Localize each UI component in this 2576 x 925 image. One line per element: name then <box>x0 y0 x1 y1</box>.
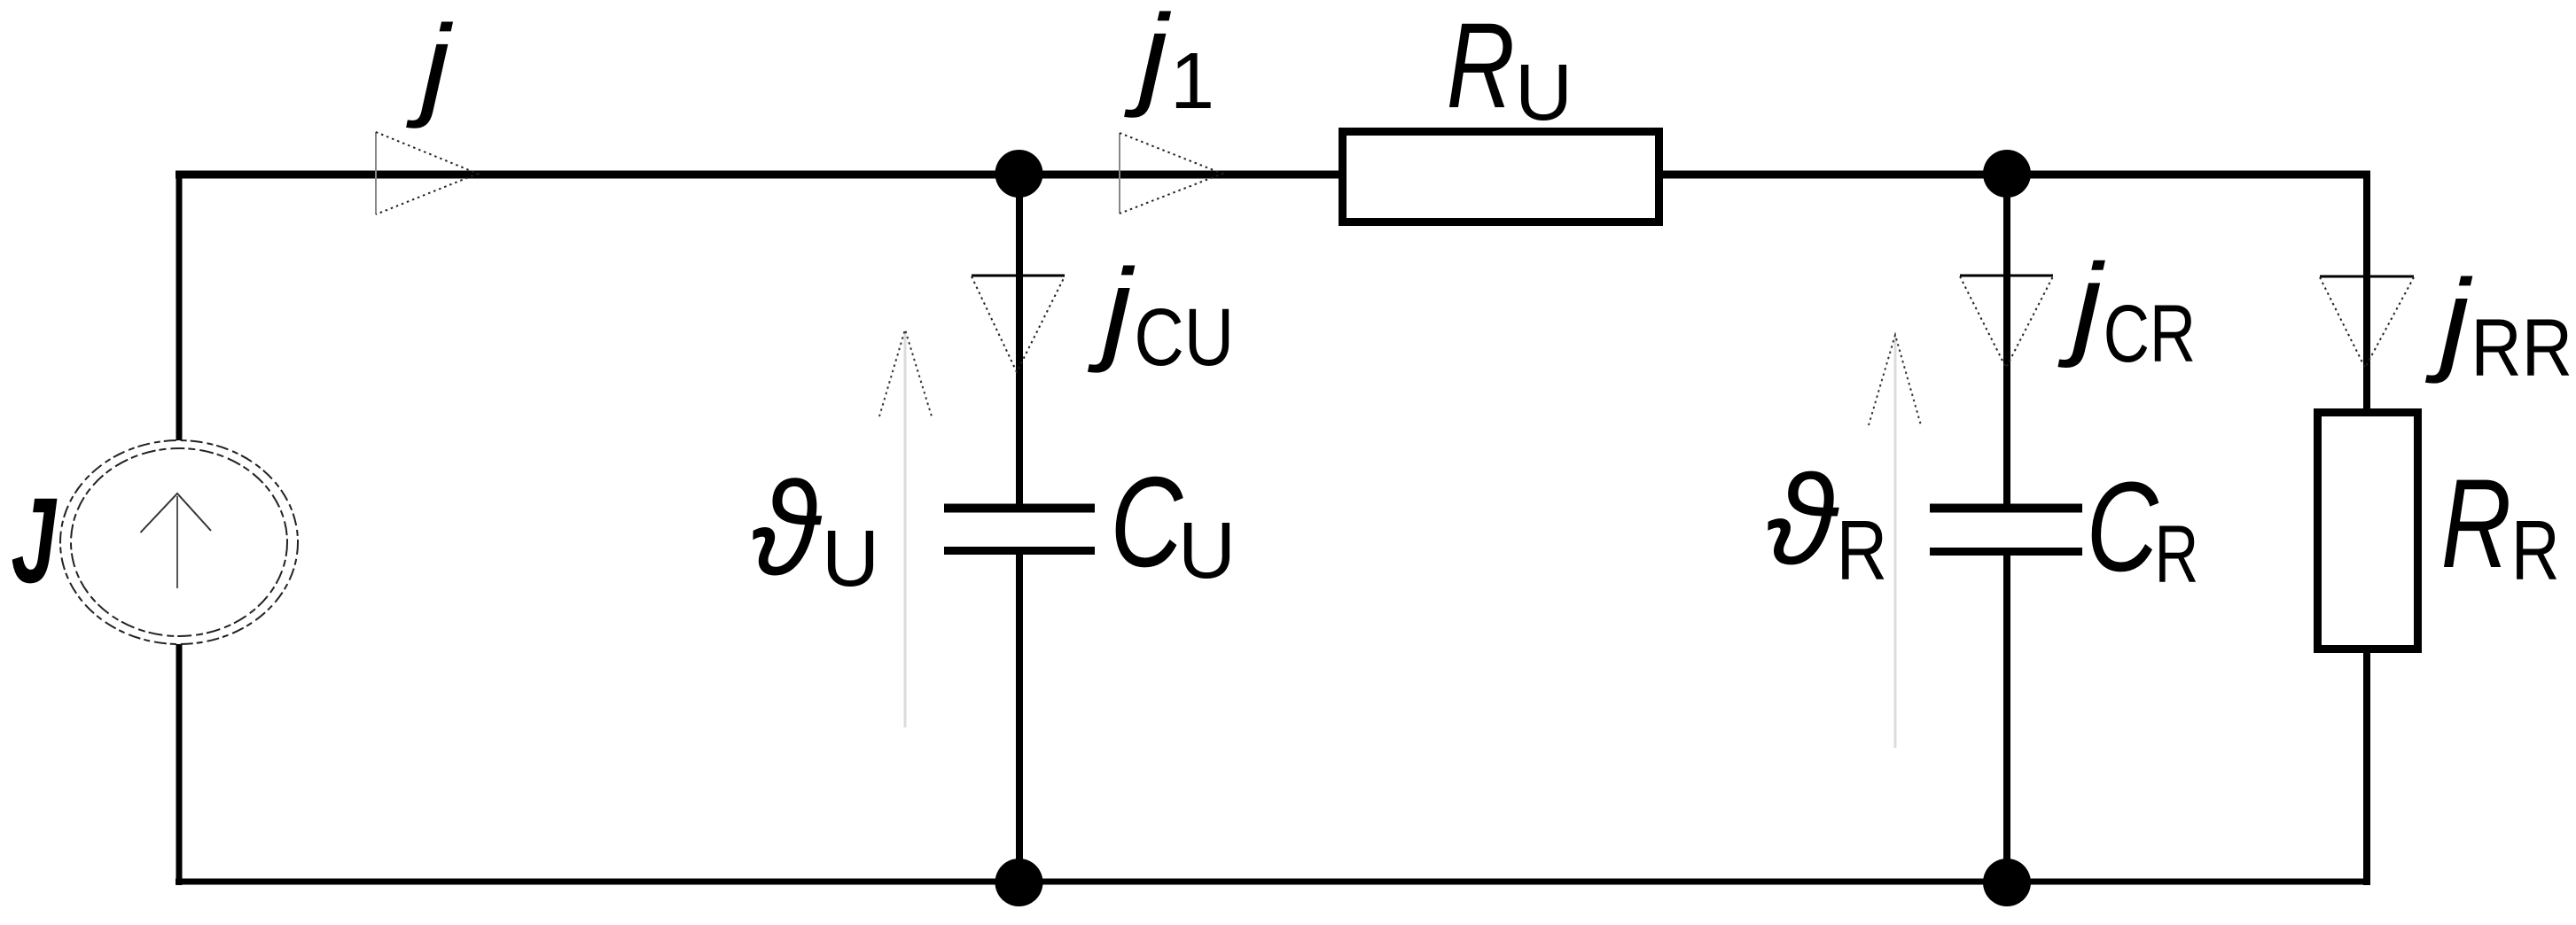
wire top horizontal <box>176 171 2370 179</box>
node C bottom-left junction <box>995 859 1043 906</box>
current source J arrow head <box>141 494 212 532</box>
svg-text:CR: CR <box>2104 288 2196 379</box>
svg-text:1: 1 <box>1170 37 1214 126</box>
arrow j1 back edge <box>1119 133 1120 214</box>
svg-text:ϑ: ϑ <box>1766 448 1839 591</box>
resistor RU <box>1343 132 1659 222</box>
svg-text:RR: RR <box>2471 303 2572 394</box>
svg-text:R: R <box>1837 502 1888 598</box>
svg-text:j: j <box>1124 0 1172 119</box>
node A top-left junction <box>995 150 1043 198</box>
current source J circle outer <box>60 440 298 644</box>
voltage arrow thetaR head <box>1869 335 1921 425</box>
svg-text:j: j <box>2425 255 2473 385</box>
wire CU branch lower <box>1016 551 1023 886</box>
arrow jCU top edge <box>972 275 1065 277</box>
node D bottom-right junction <box>1983 859 2031 906</box>
svg-text:j: j <box>406 2 454 129</box>
arrow j back edge <box>375 132 377 214</box>
wire CU branch upper <box>1016 170 1023 508</box>
voltage arrow thetaR shaft <box>1894 337 1897 748</box>
arrow jCR slants <box>1960 276 2053 368</box>
svg-text:C: C <box>1110 449 1183 594</box>
current source J circle inner <box>71 448 287 636</box>
svg-text:C: C <box>2087 456 2159 599</box>
capacitor CR bottom plate <box>1930 548 2082 556</box>
current source J arrow shaft <box>176 496 178 588</box>
wire CR branch upper <box>2003 170 2010 508</box>
svg-text:R: R <box>2511 504 2560 599</box>
svg-text:U: U <box>1515 49 1573 137</box>
arrow jCR top edge <box>1960 275 2053 277</box>
capacitor CR top plate <box>1930 504 2082 513</box>
svg-text:ϑ: ϑ <box>751 454 823 602</box>
svg-text:U: U <box>1178 507 1236 595</box>
wire CR branch lower <box>2003 551 2010 886</box>
voltage arrow thetaU head <box>879 330 932 416</box>
wire left vertical <box>176 171 183 885</box>
capacitor CU bottom plate <box>944 547 1095 555</box>
arrow jCU slants <box>972 276 1065 372</box>
arrow j1 slants <box>1120 133 1222 214</box>
arrow j slants <box>376 132 478 214</box>
arrow jRR top edge <box>2320 276 2414 278</box>
capacitor CU top plate <box>944 504 1095 513</box>
arrow jRR slants <box>2320 277 2414 368</box>
svg-text:j: j <box>1088 245 1136 374</box>
svg-text:R: R <box>1447 0 1515 134</box>
node B top-right junction <box>1983 150 2031 198</box>
svg-text:U: U <box>822 515 879 603</box>
svg-text:CU: CU <box>1134 292 1234 383</box>
wire right vertical <box>2363 171 2370 885</box>
resistor RR <box>2318 413 2418 649</box>
svg-text:j: j <box>2057 239 2105 369</box>
wire bottom horizontal <box>176 879 2370 885</box>
voltage arrow thetaU shaft <box>904 331 907 727</box>
svg-text:J: J <box>12 472 58 608</box>
svg-text:R: R <box>2155 509 2199 600</box>
svg-text:R: R <box>2441 453 2512 595</box>
